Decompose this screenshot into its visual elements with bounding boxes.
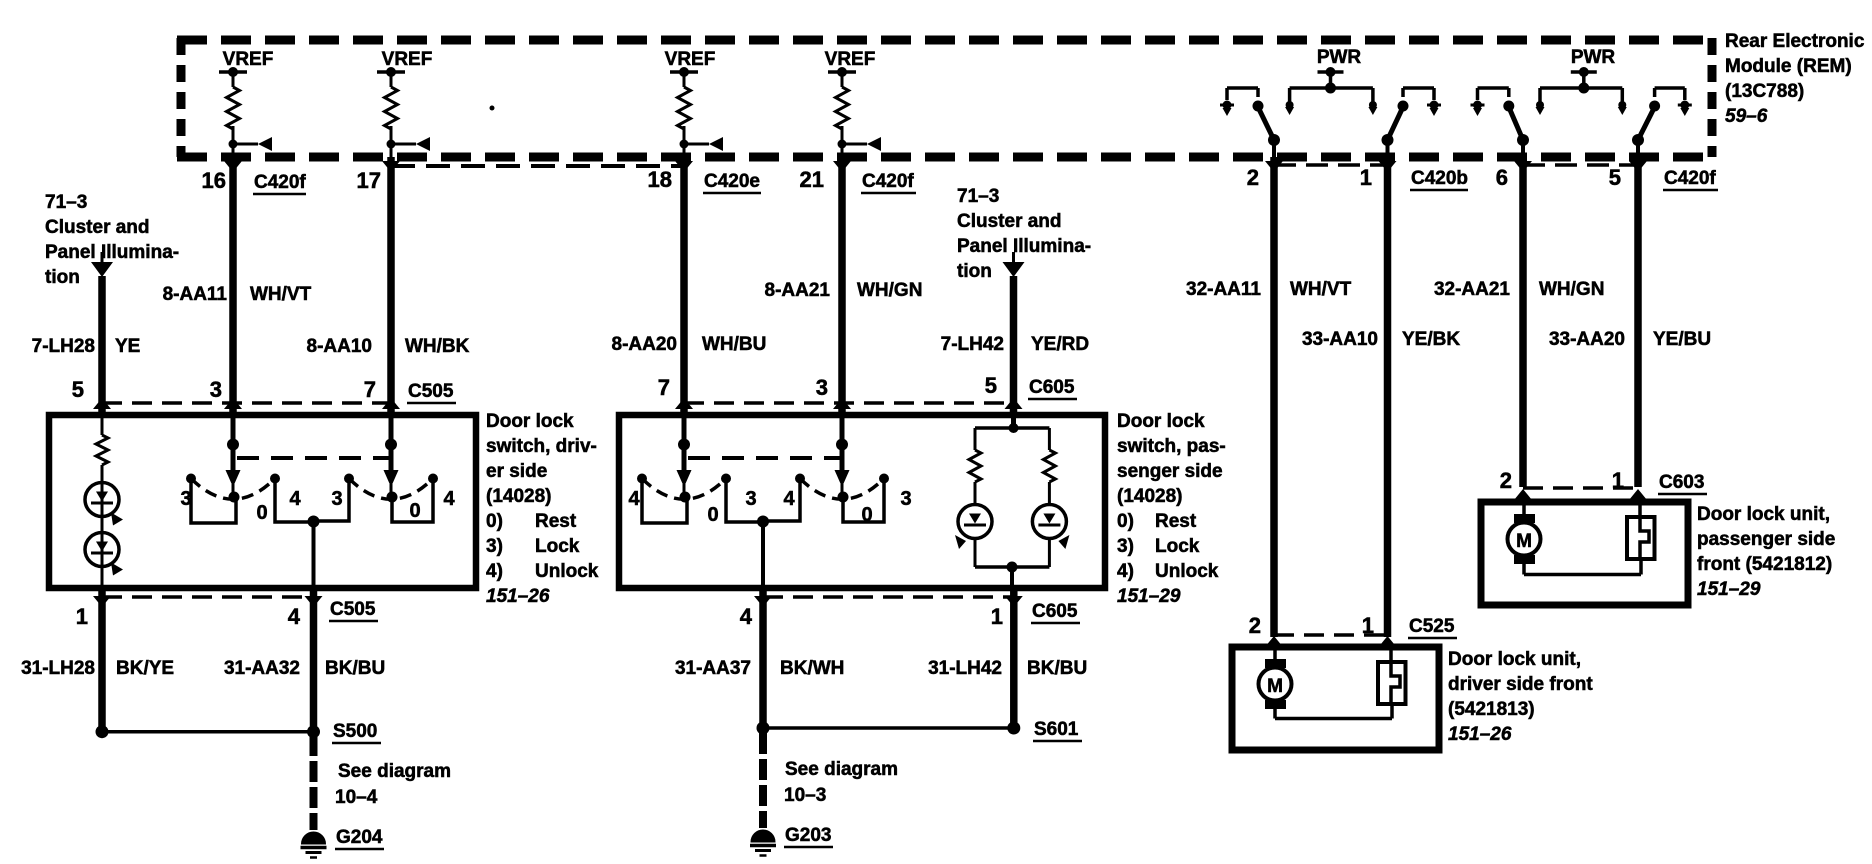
svg-text:4: 4 bbox=[288, 604, 301, 629]
svg-text:driver side front: driver side front bbox=[1448, 674, 1593, 695]
svg-text:tion: tion bbox=[957, 261, 992, 282]
svg-text:1: 1 bbox=[991, 604, 1003, 629]
svg-text:YE: YE bbox=[115, 336, 140, 357]
svg-text:4: 4 bbox=[628, 488, 640, 510]
svg-text:WH/GN: WH/GN bbox=[1539, 279, 1604, 300]
svg-text:7: 7 bbox=[364, 377, 376, 402]
svg-text:Module (REM): Module (REM) bbox=[1725, 56, 1852, 77]
svg-text:C420f: C420f bbox=[1664, 168, 1716, 189]
svg-text:S500: S500 bbox=[333, 721, 377, 742]
svg-text:(13C788): (13C788) bbox=[1725, 81, 1804, 102]
svg-text:3: 3 bbox=[900, 488, 911, 510]
svg-text:C505: C505 bbox=[408, 381, 454, 402]
svg-text:6: 6 bbox=[1496, 165, 1508, 190]
svg-text:4: 4 bbox=[443, 488, 455, 510]
svg-text:M: M bbox=[1516, 531, 1532, 552]
svg-text:C605: C605 bbox=[1029, 377, 1075, 398]
svg-text:3: 3 bbox=[180, 488, 191, 510]
svg-text:C603: C603 bbox=[1659, 472, 1704, 493]
svg-text:BK/YE: BK/YE bbox=[116, 658, 174, 679]
svg-text:(14028): (14028) bbox=[1117, 486, 1183, 507]
svg-text:YE/RD: YE/RD bbox=[1031, 334, 1089, 355]
svg-text:2: 2 bbox=[1247, 165, 1259, 190]
svg-text:YE/BU: YE/BU bbox=[1653, 329, 1711, 350]
svg-text:er side: er side bbox=[486, 461, 547, 482]
svg-text:71–3: 71–3 bbox=[957, 186, 999, 207]
svg-text:C420f: C420f bbox=[862, 171, 914, 192]
svg-text:4: 4 bbox=[783, 488, 795, 510]
svg-text:PWR: PWR bbox=[1571, 47, 1616, 68]
svg-text:VREF: VREF bbox=[665, 49, 716, 70]
svg-text:BK/BU: BK/BU bbox=[1027, 658, 1087, 679]
svg-text:7: 7 bbox=[658, 375, 670, 400]
svg-text:G204: G204 bbox=[336, 827, 383, 848]
svg-text:Panel Illumina-: Panel Illumina- bbox=[45, 242, 179, 263]
svg-text:WH/VT: WH/VT bbox=[1290, 279, 1352, 300]
svg-text:5: 5 bbox=[985, 373, 997, 398]
svg-text:C420e: C420e bbox=[704, 171, 760, 192]
svg-text:switch, driv-: switch, driv- bbox=[486, 436, 597, 457]
svg-text:(14028): (14028) bbox=[486, 486, 552, 507]
svg-text:(5421813): (5421813) bbox=[1448, 699, 1535, 720]
svg-text:5: 5 bbox=[72, 377, 84, 402]
svg-text:2: 2 bbox=[1500, 468, 1512, 493]
svg-text:VREF: VREF bbox=[223, 49, 274, 70]
svg-text:5: 5 bbox=[1609, 165, 1621, 190]
svg-text:4): 4) bbox=[486, 561, 503, 582]
svg-text:senger side: senger side bbox=[1117, 461, 1223, 482]
svg-text:WH/VT: WH/VT bbox=[250, 284, 312, 305]
svg-text:32-AA21: 32-AA21 bbox=[1434, 279, 1510, 300]
svg-text:151–29: 151–29 bbox=[1117, 586, 1181, 607]
svg-text:C420f: C420f bbox=[254, 172, 306, 193]
svg-text:PWR: PWR bbox=[1317, 47, 1362, 68]
svg-text:31-LH28: 31-LH28 bbox=[21, 658, 95, 679]
svg-text:8-AA20: 8-AA20 bbox=[612, 334, 677, 355]
svg-text:3: 3 bbox=[331, 488, 342, 510]
svg-text:7-LH42: 7-LH42 bbox=[941, 334, 1004, 355]
svg-text:G203: G203 bbox=[785, 825, 831, 846]
svg-text:Door lock unit,: Door lock unit, bbox=[1448, 649, 1581, 670]
svg-text:4: 4 bbox=[740, 604, 753, 629]
svg-text:0: 0 bbox=[256, 502, 267, 524]
svg-text:1: 1 bbox=[76, 604, 88, 629]
svg-text:8-AA10: 8-AA10 bbox=[307, 336, 372, 357]
svg-text:1: 1 bbox=[1612, 468, 1624, 493]
svg-text:Unlock: Unlock bbox=[1155, 561, 1219, 582]
svg-text:0: 0 bbox=[707, 504, 718, 526]
svg-text:VREF: VREF bbox=[382, 49, 433, 70]
svg-text:33-AA20: 33-AA20 bbox=[1549, 329, 1625, 350]
svg-text:3: 3 bbox=[210, 377, 222, 402]
svg-text:Unlock: Unlock bbox=[535, 561, 599, 582]
svg-text:switch, pas-: switch, pas- bbox=[1117, 436, 1226, 457]
svg-text:32-AA11: 32-AA11 bbox=[1186, 279, 1261, 300]
svg-text:S601: S601 bbox=[1034, 719, 1079, 740]
svg-text:tion: tion bbox=[45, 267, 80, 288]
svg-text:front (5421812): front (5421812) bbox=[1697, 554, 1832, 575]
svg-text:151–26: 151–26 bbox=[1448, 724, 1512, 745]
svg-text:1: 1 bbox=[1360, 165, 1372, 190]
svg-text:8-AA21: 8-AA21 bbox=[765, 280, 831, 301]
svg-text:Rest: Rest bbox=[1155, 511, 1197, 532]
svg-text:31-AA32: 31-AA32 bbox=[224, 658, 300, 679]
svg-text:1: 1 bbox=[1362, 613, 1374, 638]
svg-text:C525: C525 bbox=[1409, 616, 1455, 637]
svg-text:WH/BU: WH/BU bbox=[702, 334, 766, 355]
svg-text:Lock: Lock bbox=[535, 536, 580, 557]
svg-text:17: 17 bbox=[357, 168, 381, 193]
svg-text:3): 3) bbox=[1117, 536, 1134, 557]
svg-text:C605: C605 bbox=[1032, 601, 1078, 622]
svg-text:Door lock unit,: Door lock unit, bbox=[1697, 504, 1830, 525]
svg-text:0): 0) bbox=[1117, 511, 1134, 532]
svg-text:M: M bbox=[1267, 676, 1283, 697]
svg-text:Cluster and: Cluster and bbox=[957, 211, 1062, 232]
svg-text:3: 3 bbox=[816, 375, 828, 400]
svg-text:3: 3 bbox=[745, 488, 756, 510]
svg-text:YE/BK: YE/BK bbox=[1402, 329, 1460, 350]
svg-text:31-AA37: 31-AA37 bbox=[675, 658, 751, 679]
svg-text:0: 0 bbox=[861, 504, 872, 526]
svg-text:33-AA10: 33-AA10 bbox=[1302, 329, 1378, 350]
svg-text:21: 21 bbox=[800, 167, 824, 192]
svg-text:Cluster and: Cluster and bbox=[45, 217, 150, 238]
svg-text:2: 2 bbox=[1249, 613, 1261, 638]
svg-text:151–26: 151–26 bbox=[486, 586, 550, 607]
svg-text:Door lock: Door lock bbox=[486, 411, 574, 432]
svg-text:BK/BU: BK/BU bbox=[325, 658, 385, 679]
svg-text:18: 18 bbox=[648, 167, 672, 192]
svg-text:10–4: 10–4 bbox=[335, 787, 378, 808]
svg-text:59–6: 59–6 bbox=[1725, 106, 1768, 127]
svg-text:Rest: Rest bbox=[535, 511, 577, 532]
svg-text:10–3: 10–3 bbox=[784, 785, 826, 806]
svg-text:C420b: C420b bbox=[1411, 168, 1468, 189]
svg-text:71–3: 71–3 bbox=[45, 192, 87, 213]
svg-text:C505: C505 bbox=[330, 599, 376, 620]
svg-text:Lock: Lock bbox=[1155, 536, 1200, 557]
svg-text:7-LH28: 7-LH28 bbox=[32, 336, 95, 357]
svg-text:4): 4) bbox=[1117, 561, 1134, 582]
svg-text:See diagram: See diagram bbox=[338, 761, 451, 782]
svg-text:WH/BK: WH/BK bbox=[405, 336, 470, 357]
svg-text:Door lock: Door lock bbox=[1117, 411, 1205, 432]
svg-text:See diagram: See diagram bbox=[785, 759, 898, 780]
svg-text:8-AA11: 8-AA11 bbox=[163, 284, 228, 305]
svg-text:3): 3) bbox=[486, 536, 503, 557]
svg-text:Rear Electronic: Rear Electronic bbox=[1725, 31, 1865, 52]
svg-text:Panel Illumina-: Panel Illumina- bbox=[957, 236, 1091, 257]
svg-text:BK/WH: BK/WH bbox=[780, 658, 844, 679]
svg-text:passenger side: passenger side bbox=[1697, 529, 1835, 550]
svg-text:4: 4 bbox=[289, 488, 301, 510]
svg-text:WH/GN: WH/GN bbox=[857, 280, 922, 301]
svg-text:31-LH42: 31-LH42 bbox=[928, 658, 1002, 679]
svg-text:0: 0 bbox=[409, 500, 420, 522]
svg-text:VREF: VREF bbox=[825, 49, 876, 70]
svg-text:151–29: 151–29 bbox=[1697, 579, 1761, 600]
svg-text:16: 16 bbox=[202, 168, 226, 193]
svg-text:0): 0) bbox=[486, 511, 503, 532]
